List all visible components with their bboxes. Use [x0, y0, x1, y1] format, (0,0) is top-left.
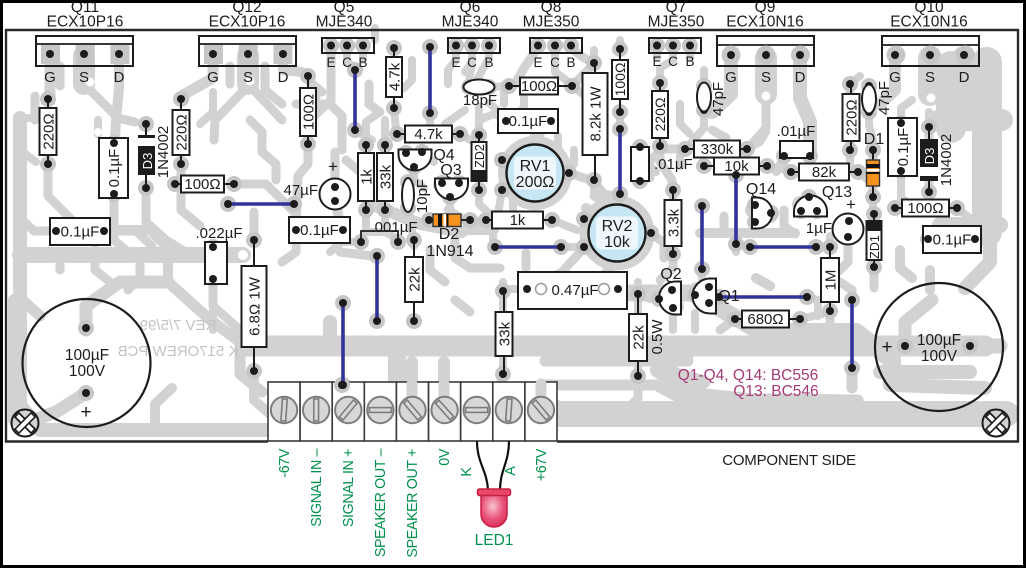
svg-text:100µF: 100µF [917, 332, 961, 349]
capacitor .022uF [196, 225, 243, 284]
svg-text:0.5W: 0.5W [649, 319, 666, 355]
trimmer cap 10pF [402, 178, 431, 213]
capacitor 0.47uF [518, 272, 627, 309]
svg-text:MJE340: MJE340 [316, 14, 373, 31]
svg-text:0.1µF: 0.1µF [106, 149, 123, 188]
diode D3 1N4002 (right) [920, 127, 955, 192]
labels [47, 0, 968, 31]
wire [734, 175, 738, 244]
svg-text:100Ω: 100Ω [612, 63, 628, 97]
resistor 1k [358, 145, 375, 210]
svg-text:Q3: Q3 [440, 162, 461, 179]
svg-text:100µF: 100µF [65, 347, 109, 364]
wire [228, 202, 294, 206]
power FET Q9 package [717, 36, 814, 66]
svg-text:0.47µF: 0.47µF [552, 282, 599, 299]
svg-text:1N4002: 1N4002 [938, 134, 955, 187]
wire [353, 70, 357, 130]
svg-text:0.1µF: 0.1µF [300, 222, 339, 239]
wire [850, 300, 854, 368]
resistor 3.3k [665, 190, 683, 254]
diode D1 [864, 131, 885, 197]
svg-text:+: + [328, 157, 338, 176]
svg-text:B: B [484, 55, 493, 70]
resistor 22k [405, 240, 423, 321]
svg-text:D: D [959, 69, 970, 86]
svg-text:E: E [533, 55, 542, 70]
svg-text:4.7k: 4.7k [386, 62, 403, 91]
resistor 1M [821, 247, 839, 311]
trimpot RV1 200R [507, 145, 564, 202]
svg-text:47pF: 47pF [876, 81, 893, 115]
svg-text:1N914: 1N914 [426, 243, 473, 260]
svg-text:D3: D3 [922, 148, 937, 165]
svg-text:ECX10P16: ECX10P16 [209, 14, 286, 31]
svg-text:MJE350: MJE350 [648, 14, 705, 31]
capacitor 0.1uF [289, 217, 350, 243]
resistor 6.8R 1W [242, 240, 267, 371]
resistor 4.7k [397, 126, 460, 144]
svg-text:33k: 33k [377, 164, 394, 189]
svg-text:100Ω: 100Ω [521, 78, 557, 95]
resistor 4.7k [386, 48, 403, 108]
resistor 100R [300, 76, 317, 144]
svg-text:+: + [80, 402, 91, 423]
svg-text:C: C [467, 55, 477, 70]
svg-text:REV 7/5/99: REV 7/5/99 [140, 317, 217, 334]
svg-text:.001µF: .001µF [371, 219, 418, 236]
svg-text:680Ω: 680Ω [747, 311, 783, 328]
svg-text:MJE350: MJE350 [523, 14, 580, 31]
svg-text:D3: D3 [140, 153, 155, 170]
svg-text:D: D [278, 69, 289, 86]
svg-text:100V: 100V [921, 348, 958, 365]
resistor 680R [735, 311, 800, 329]
svg-text:0.1µF: 0.1µF [509, 113, 548, 130]
mounting hole (bottom-right) [983, 410, 1010, 437]
wire [618, 129, 622, 194]
label 18pF + trimmer cap [463, 80, 497, 110]
svg-text:100V: 100V [69, 363, 106, 380]
svg-text:330k: 330k [701, 141, 734, 158]
svg-text:D: D [795, 69, 806, 86]
svg-text:47pF: 47pF [710, 82, 727, 116]
svg-text:1N4002: 1N4002 [155, 126, 172, 179]
jumper wires (insulated links) [228, 47, 852, 385]
svg-text:22k: 22k [630, 325, 647, 350]
svg-text:S: S [79, 69, 89, 86]
resistor 220R (Q11 gate) [40, 99, 58, 164]
copper traces (component-side view) [14, 28, 1006, 430]
board outline [6, 30, 1018, 442]
capacitor 0.1uF [923, 226, 981, 253]
svg-text:6.8Ω 1W: 6.8Ω 1W [246, 276, 263, 336]
svg-text:C: C [668, 54, 678, 69]
transistor Q13 [794, 196, 827, 217]
svg-text:MJE340: MJE340 [442, 14, 499, 31]
svg-text:+67V: +67V [534, 448, 550, 481]
svg-text:Q13: Q13 [822, 184, 852, 201]
svg-text:8.2k 1W: 8.2k 1W [587, 86, 604, 142]
power FET Q12 package [199, 36, 296, 66]
diode D2 1N914 [426, 214, 473, 260]
transistor Q2 [659, 282, 681, 315]
svg-text:220Ω: 220Ω [652, 98, 668, 132]
svg-text:Q13: BC546: Q13: BC546 [733, 383, 818, 400]
svg-text:RV2: RV2 [602, 218, 633, 235]
transistor Q14 [752, 198, 772, 229]
svg-text:3.3k: 3.3k [665, 208, 682, 237]
svg-text:E: E [326, 55, 335, 70]
svg-text:1k: 1k [358, 169, 375, 185]
svg-text:1M: 1M [822, 270, 839, 291]
trimmer cap 47pF (left) [697, 82, 727, 116]
resistor 8.2k 1W [583, 63, 608, 180]
wire [750, 245, 816, 249]
svg-text:C: C [342, 55, 352, 70]
terminal block (9 screw terminals) [268, 377, 557, 441]
capacitor 47uF electrolytic [284, 157, 351, 210]
solder pads [40, 38, 983, 402]
resistor 220R (Q12 gate) [173, 99, 191, 164]
svg-text:-67V: -67V [277, 448, 293, 477]
power FET Q11 package [36, 36, 133, 66]
power FET Q10 package [882, 36, 979, 66]
transistor Q6 package [448, 38, 500, 53]
svg-text:E: E [652, 54, 661, 69]
svg-text:.01µF: .01µF [654, 156, 693, 173]
svg-text:S: S [243, 69, 253, 86]
capacitor 0.1uF [99, 138, 128, 198]
svg-text:220Ω: 220Ω [843, 99, 860, 135]
wire [495, 245, 561, 249]
capacitor .01uF [777, 123, 816, 158]
svg-text:E: E [451, 55, 460, 70]
zener ZD2 [472, 135, 488, 190]
svg-text:ECX10P16: ECX10P16 [47, 14, 124, 31]
capacitor .01uF [631, 147, 693, 181]
resistor 330k [685, 141, 747, 159]
svg-text:220Ω: 220Ω [173, 114, 190, 150]
svg-text:D: D [114, 69, 125, 86]
capacitor 0.1uF [50, 218, 110, 245]
svg-text:Q1-Q4, Q14: BC556: Q1-Q4, Q14: BC556 [678, 367, 818, 384]
svg-text:COMPONENT SIDE: COMPONENT SIDE [722, 452, 856, 469]
svg-text:D1: D1 [864, 131, 885, 148]
component lead holes [44, 42, 979, 398]
svg-text:18pF: 18pF [463, 92, 497, 109]
wire [341, 303, 345, 385]
transistor Q3 [435, 179, 468, 200]
capacitor 0.1uF [498, 109, 558, 133]
svg-text:0.1µF: 0.1µF [895, 128, 912, 167]
svg-text:220Ω: 220Ω [40, 113, 57, 149]
transistor Q4 [399, 150, 432, 171]
resistor 100R [895, 200, 957, 218]
diode D3 1N4002 (left) [138, 124, 172, 188]
svg-text:K 517OREW PCB: K 517OREW PCB [118, 343, 239, 360]
svg-text:ZD2: ZD2 [473, 144, 487, 168]
svg-text:47µF: 47µF [284, 182, 319, 199]
resistor 100R [509, 78, 572, 96]
svg-text:G: G [207, 69, 219, 86]
resistor 82k [791, 164, 858, 182]
resistor 220R (Q10 gate) [843, 84, 861, 150]
svg-text:RV1: RV1 [520, 158, 551, 175]
capacitor 100uF 100V electrolytic (left) [23, 299, 151, 427]
svg-text:10k: 10k [604, 234, 631, 251]
svg-text:K: K [459, 467, 475, 477]
transistor Q5 package [322, 38, 374, 53]
capacitor .001uF [361, 219, 418, 242]
svg-text:ZD1: ZD1 [868, 235, 882, 259]
svg-text:C: C [550, 55, 560, 70]
LED1 leads [477, 441, 509, 490]
svg-text:B: B [685, 54, 694, 69]
svg-text:0V: 0V [437, 448, 453, 466]
svg-text:S: S [925, 69, 935, 86]
resistor 22k 0.5W [629, 294, 647, 376]
transistor Q1 [693, 279, 717, 314]
capacitor 100uF 100V electrolytic (right) [875, 283, 1003, 411]
resistor 33k (input) [496, 291, 514, 374]
wire [700, 206, 704, 269]
svg-text:4.7k: 4.7k [414, 126, 443, 143]
resistor 1k [486, 212, 552, 230]
trimmer cap 47pF (right) [862, 81, 893, 115]
svg-text:SIGNAL IN +: SIGNAL IN + [341, 449, 357, 527]
transistor Q7 package [649, 38, 701, 53]
svg-text:100Ω: 100Ω [184, 176, 220, 193]
svg-text:A: A [503, 466, 519, 476]
resistor 100R [612, 49, 628, 112]
svg-text:LED1: LED1 [475, 532, 514, 549]
terminal labels [277, 448, 550, 557]
svg-text:S: S [761, 69, 771, 86]
svg-text:B: B [566, 55, 575, 70]
svg-text:SIGNAL IN –: SIGNAL IN – [309, 449, 325, 527]
svg-text:1µF: 1µF [806, 220, 832, 237]
resistor 33k [377, 145, 394, 210]
svg-text:33k: 33k [496, 321, 513, 346]
svg-text:100Ω: 100Ω [300, 94, 317, 130]
svg-text:200Ω: 200Ω [516, 174, 555, 191]
trimpot RV2 10k [589, 205, 646, 262]
via holes [86, 77, 936, 295]
transistor Q8 package [530, 38, 582, 53]
svg-text:0.1µF: 0.1µF [933, 232, 972, 249]
svg-text:Q2: Q2 [660, 266, 681, 283]
svg-text:22k: 22k [406, 267, 423, 292]
wire [719, 295, 807, 299]
svg-text:SPEAKER OUT +: SPEAKER OUT + [405, 449, 421, 558]
svg-text:.01µF: .01µF [777, 123, 816, 140]
svg-text:10pF: 10pF [414, 179, 431, 213]
resistor 220R [652, 83, 668, 146]
svg-text:.022µF: .022µF [196, 225, 243, 242]
mounting hole (bottom-left) [12, 410, 39, 437]
resistor 10k [704, 158, 767, 176]
wire [428, 47, 432, 113]
svg-text:1k: 1k [510, 212, 526, 229]
svg-text:B: B [358, 55, 367, 70]
svg-text:ECX10N16: ECX10N16 [890, 14, 968, 31]
svg-text:0.1µF: 0.1µF [61, 224, 100, 241]
svg-text:G: G [44, 69, 56, 86]
svg-text:ECX10N16: ECX10N16 [726, 14, 804, 31]
svg-text:+: + [881, 337, 892, 358]
zener ZD1 [867, 214, 883, 267]
svg-text:Q14: Q14 [746, 181, 776, 198]
svg-text:SPEAKER OUT –: SPEAKER OUT – [373, 449, 389, 558]
capacitor 1uF electrolytic [806, 195, 864, 245]
svg-text:D2: D2 [439, 226, 460, 243]
svg-text:82k: 82k [812, 164, 837, 181]
svg-text:Q1: Q1 [718, 288, 739, 305]
resistor 100R [175, 176, 234, 194]
capacitor 0.1uF [888, 118, 917, 176]
wire [375, 256, 379, 321]
svg-text:100Ω: 100Ω [907, 200, 943, 217]
